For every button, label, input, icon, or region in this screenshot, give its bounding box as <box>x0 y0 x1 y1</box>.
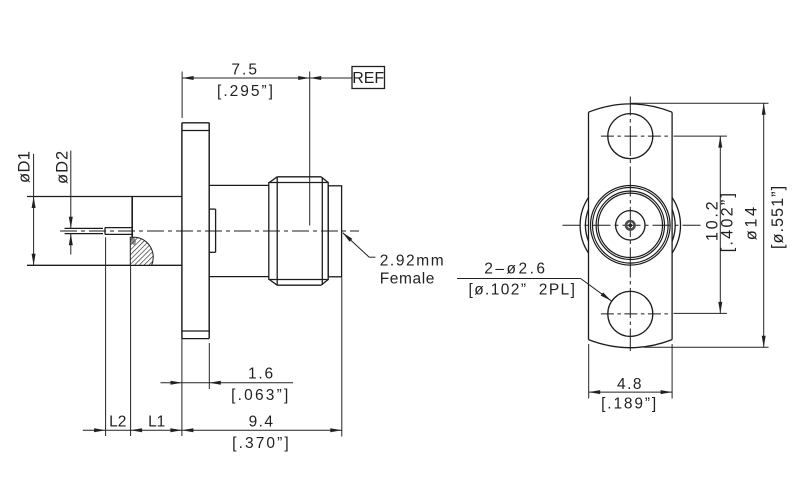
interface cylinder <box>328 186 341 277</box>
dim 10.2 lines <box>674 136 727 313</box>
hex flat arc left <box>586 209 589 241</box>
arrow L2 right <box>131 428 143 432</box>
svg-text:2–ø2.6: 2–ø2.6 <box>484 261 547 278</box>
svg-text:REF: REF <box>352 70 384 87</box>
bottom hole centerline <box>601 313 670 315</box>
arrow 7.5 right <box>298 76 310 80</box>
center contact outer <box>626 221 635 230</box>
arrow L2 left <box>94 428 106 432</box>
svg-text:[ø.551”]: [ø.551”] <box>769 185 787 249</box>
flange <box>182 123 209 339</box>
2-o2.6 leader lines <box>457 279 611 301</box>
connector body cylinder <box>209 185 269 276</box>
top mounting hole <box>608 114 653 159</box>
front view vertical centerline <box>629 97 631 352</box>
thread ring 2 <box>593 188 669 264</box>
REF box <box>352 67 385 89</box>
svg-text:[ø.102” 2PL]: [ø.102” 2PL] <box>468 281 576 298</box>
2.92mm Female leader <box>343 233 376 258</box>
svg-text:L1: L1 <box>148 414 165 431</box>
bead housing outline <box>27 197 182 266</box>
hex nut section <box>269 177 328 285</box>
hex flat arc right <box>672 209 675 241</box>
bead hatch section <box>130 237 153 265</box>
arrow 10.2 top <box>718 136 722 148</box>
arrow 4.8 left <box>589 390 601 394</box>
dim o14 lines <box>631 103 769 347</box>
svg-text:[.370”]: [.370”] <box>232 435 291 452</box>
svg-text:[.295”]: [.295”] <box>217 83 275 100</box>
side view centerline <box>60 230 359 232</box>
arrow 7.5 left <box>182 76 194 80</box>
svg-text:[.063”]: [.063”] <box>231 387 290 404</box>
svg-text:ø14: ø14 <box>743 204 761 240</box>
hex corner arc left <box>580 198 588 254</box>
bottom mounting hole <box>608 291 653 336</box>
svg-text:[.189”]: [.189”] <box>601 396 658 413</box>
dim bottom row lines <box>83 237 342 436</box>
arrow o14 bottom <box>762 336 766 348</box>
arrow L1 right <box>170 428 182 432</box>
svg-text:9.4: 9.4 <box>249 413 275 430</box>
svg-text:[.402”]: [.402”] <box>718 191 736 253</box>
thread ring 3 <box>596 191 664 259</box>
arrow 4.8 right <box>661 390 673 394</box>
arrow oD1 bottom <box>32 254 36 265</box>
svg-text:4.8: 4.8 <box>617 376 643 393</box>
dim oD2 lines <box>70 151 72 255</box>
top hole centerline <box>601 135 670 137</box>
arrow o14 top <box>762 103 766 115</box>
svg-text:2.92mm: 2.92mm <box>380 253 446 270</box>
arrow 9.4 right <box>330 428 342 432</box>
arrow REF leader <box>310 76 322 80</box>
hex corner arc right <box>672 198 680 254</box>
arrow oD2 bottom <box>69 234 73 246</box>
arrow oD1 top <box>32 197 36 209</box>
svg-text:1.6: 1.6 <box>248 366 275 383</box>
arrow 10.2 bottom <box>718 302 722 314</box>
arrow 9.4 left <box>182 428 194 432</box>
socket circle <box>616 211 645 240</box>
arrow 1.6 right <box>209 381 221 385</box>
arrow 2-o2.6 leader <box>601 292 612 300</box>
svg-text:7.5: 7.5 <box>231 62 259 79</box>
dim oD1 lines <box>33 154 35 265</box>
thread ring 4 <box>598 193 662 257</box>
pin thick section <box>105 228 133 235</box>
dim 1.6 lines <box>161 343 294 389</box>
2.92mm leader arrowhead <box>343 233 353 242</box>
dim 4.8 lines <box>589 344 672 399</box>
svg-text:øD2: øD2 <box>54 150 72 184</box>
arrow oD2 top <box>69 217 73 229</box>
dim 7.5 lines <box>182 72 352 226</box>
arrow 1.6 left <box>171 381 183 385</box>
svg-text:Female: Female <box>380 271 435 288</box>
flange outline front <box>589 104 673 348</box>
pin thin section <box>65 228 103 233</box>
thread ring 1 <box>591 186 671 266</box>
front view horizontal centerline <box>563 224 704 226</box>
center contact inner <box>629 224 632 227</box>
svg-text:L2: L2 <box>109 414 126 431</box>
svg-text:øD1: øD1 <box>16 151 34 183</box>
boss step behind flange <box>209 209 215 252</box>
